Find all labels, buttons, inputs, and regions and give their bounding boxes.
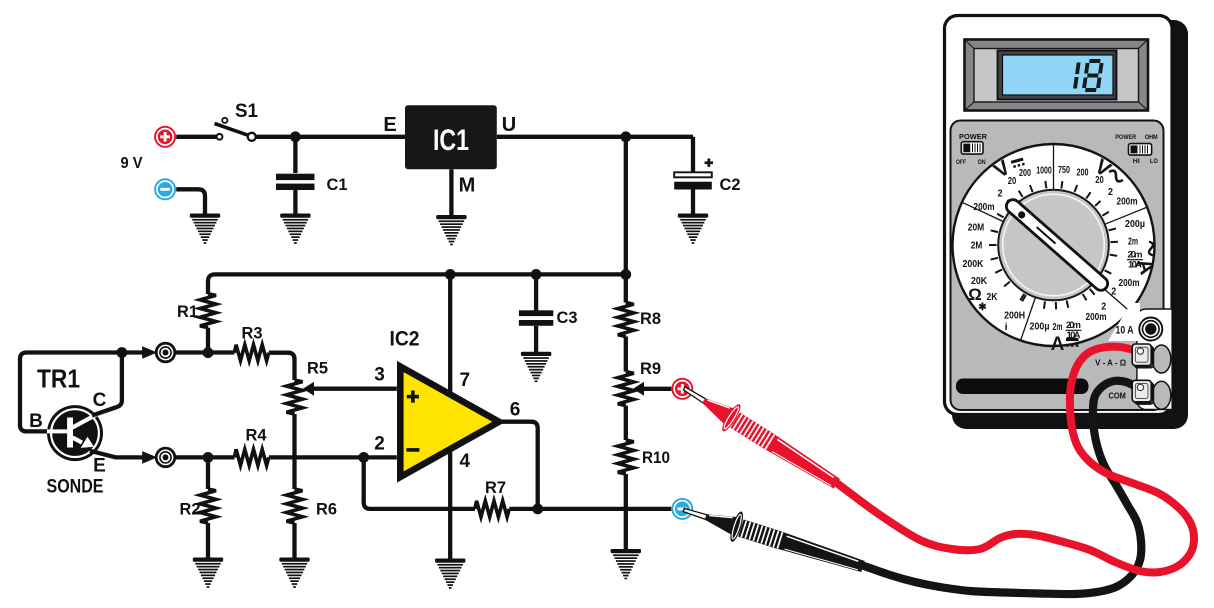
svg-text:R5: R5 — [307, 360, 328, 378]
svg-text:200µ: 200µ — [1125, 218, 1145, 230]
wire top supply rail — [208, 274, 626, 294]
power ohm switch — [1129, 144, 1152, 156]
transistor TR1 — [47, 405, 103, 461]
svg-text:COM: COM — [1108, 391, 1126, 401]
svg-text:200µ: 200µ — [1030, 321, 1050, 333]
red probe at + terminal — [676, 375, 845, 497]
svg-text:POWER: POWER — [959, 132, 988, 141]
svg-text:ON: ON — [978, 160, 986, 166]
svg-text:200: 200 — [1077, 167, 1089, 179]
ground under R10 node — [611, 549, 641, 579]
capacitor C1 — [276, 174, 315, 190]
wire R3 to R5 — [269, 353, 295, 380]
svg-text:E: E — [93, 456, 106, 477]
svg-text:200m: 200m — [1086, 311, 1107, 323]
V-A-Ohm jack with red plug — [1132, 344, 1171, 373]
svg-text:200: 200 — [1019, 167, 1031, 179]
svg-text:R8: R8 — [640, 310, 661, 328]
svg-text:200K: 200K — [963, 258, 984, 270]
svg-text:OHM: OHM — [1145, 134, 1158, 141]
svg-text:2m: 2m — [1053, 321, 1063, 333]
wire IC1 pin M to ground — [449, 169, 453, 216]
label 10 A — [1108, 303, 1140, 341]
10A input jack — [1139, 318, 1162, 341]
svg-text:200H: 200H — [1004, 310, 1025, 322]
node C3 junction — [531, 269, 542, 280]
svg-text:750: 750 — [1058, 164, 1070, 176]
svg-text:IC2: IC2 — [390, 327, 420, 351]
svg-text:4: 4 — [460, 451, 471, 472]
op-amp - input mark — [406, 448, 419, 452]
svg-text:C1: C1 — [327, 176, 348, 194]
node pin6/R7 junction — [532, 504, 543, 515]
svg-text:R10: R10 — [642, 449, 670, 467]
wire connector1 to R3 — [175, 350, 235, 354]
LCD bevel lines — [965, 40, 1149, 111]
ground under R2 — [193, 558, 223, 588]
svg-text:2: 2 — [374, 434, 385, 455]
black probe at - terminal — [679, 495, 868, 582]
dial knob — [998, 190, 1109, 301]
resistor R4 — [234, 449, 268, 465]
resistor R2 — [200, 489, 216, 523]
battery - terminal — [154, 178, 176, 200]
label A ac section — [1132, 256, 1158, 277]
LCD screen — [1003, 55, 1114, 95]
svg-text:200m: 200m — [1119, 277, 1140, 289]
resistor R1 — [200, 294, 216, 328]
wire + terminal to R9 wiper — [641, 387, 672, 391]
svg-text:1000: 1000 — [1036, 165, 1052, 177]
svg-text:HI: HI — [1133, 159, 1140, 165]
black test lead cable — [864, 381, 1141, 594]
svg-text:20M: 20M — [968, 222, 985, 234]
resistor R10 — [618, 440, 634, 474]
rotary dial face — [953, 144, 1155, 346]
resistor R8 — [618, 303, 634, 337]
ground under C3 — [521, 352, 551, 382]
LCD digits 18 — [1075, 61, 1102, 90]
wire op-amp pin4 to ground — [448, 449, 452, 560]
capacitor C3 — [519, 310, 553, 326]
wire switch to IC1 pin E — [256, 135, 405, 139]
wire to C2 — [691, 137, 695, 172]
wire connector2 to R4 — [175, 455, 235, 459]
arrow R9 wiper — [633, 382, 644, 396]
node TR1 B-C junction — [117, 347, 128, 358]
svg-text:200m: 200m — [1117, 196, 1138, 208]
measure - terminal — [671, 498, 693, 520]
wire op-amp pin6 output — [499, 422, 538, 509]
wire battery- to ground — [176, 189, 205, 214]
wire R10 down to ground — [624, 474, 628, 550]
arrow R5 wiper — [303, 382, 314, 396]
node pin2 junction — [358, 452, 369, 463]
svg-text:R1: R1 — [177, 303, 198, 321]
ground under pin 4 — [435, 559, 465, 589]
wire rail to C3 — [534, 274, 538, 310]
wire R2 to ground — [206, 523, 210, 559]
op-amp + input mark — [407, 391, 419, 403]
LCD outer frame — [965, 40, 1149, 111]
wire R9 to R10 — [624, 406, 628, 440]
wire C1 to ground — [293, 190, 297, 215]
svg-text:S1: S1 — [235, 101, 258, 122]
multimeter front panel — [951, 121, 1164, 411]
regulator IC1 — [405, 105, 497, 169]
svg-text:2: 2 — [998, 188, 1003, 200]
svg-text:2: 2 — [1111, 286, 1116, 298]
wire to arrow — [122, 350, 143, 354]
svg-text:7: 7 — [460, 370, 471, 391]
multimeter body 3d side — [952, 20, 1188, 429]
ground under C1 — [280, 214, 310, 244]
wire R8 to R9 — [624, 337, 628, 372]
svg-text:R3: R3 — [242, 325, 263, 343]
svg-text:6: 6 — [510, 400, 521, 421]
wire TR1 emitter — [90, 451, 143, 458]
wire feedback to R7 — [364, 457, 475, 509]
capacitor C2 polarity + — [705, 159, 713, 167]
svg-text:2: 2 — [1108, 186, 1113, 198]
battery compartment slot — [956, 379, 1089, 395]
wire R5 to R6 — [292, 414, 296, 489]
svg-text:V - A - Ω: V - A - Ω — [1095, 358, 1126, 368]
battery + terminal — [154, 126, 176, 148]
svg-text:10 A: 10 A — [1116, 325, 1134, 337]
svg-text:LO: LO — [1150, 159, 1158, 165]
COM jack with black plug — [1132, 380, 1171, 409]
label V ac section — [1091, 155, 1115, 182]
node R1/R3 junction — [203, 347, 214, 358]
arrow into connector 1 — [142, 346, 157, 359]
node V+ junction — [620, 131, 631, 142]
resistor R6 — [287, 489, 303, 523]
svg-text:M: M — [459, 175, 476, 197]
power switch — [961, 142, 983, 154]
svg-text:2M: 2M — [971, 240, 983, 252]
svg-text:POWER: POWER — [1115, 134, 1136, 141]
ground under IC1 M — [436, 215, 466, 245]
svg-text:200m: 200m — [974, 201, 995, 213]
ground under C2 — [678, 214, 708, 244]
wire TR1 frame — [20, 353, 122, 432]
node junction C1 — [290, 131, 301, 142]
svg-text:B: B — [29, 411, 43, 432]
arrow into connector 2 — [142, 451, 157, 464]
svg-text:C: C — [93, 390, 107, 411]
red test lead cable — [838, 347, 1194, 573]
svg-text:R9: R9 — [640, 360, 661, 378]
resistor R5 (trimmer) — [287, 380, 303, 414]
node R2 junction — [203, 452, 214, 463]
svg-text:R7: R7 — [485, 479, 506, 497]
connector jack 1 — [156, 343, 175, 362]
ground under R6 — [279, 558, 309, 588]
jack panel notch — [1137, 309, 1172, 410]
LCD bezel — [998, 51, 1117, 100]
multimeter body face — [945, 16, 1173, 415]
dial section divider lines — [963, 145, 1146, 340]
wire to C1 — [293, 137, 297, 173]
resistor R9 (trimmer) — [618, 372, 634, 406]
svg-text:TR1: TR1 — [37, 364, 80, 394]
wire IC1 U output — [497, 135, 693, 139]
dial scale fraction labels — [963, 164, 1146, 341]
knob pointer — [1004, 197, 1111, 293]
svg-text:R6: R6 — [316, 501, 337, 519]
ground under battery - — [190, 214, 220, 244]
wire TR1 collector — [92, 353, 122, 416]
switch S1 — [215, 118, 256, 141]
svg-text:SONDE: SONDE — [47, 476, 104, 498]
wire C3 to ground — [534, 326, 538, 353]
svg-text:2K: 2K — [987, 291, 998, 303]
svg-text:3: 3 — [374, 365, 385, 386]
svg-text:A: A — [1051, 334, 1065, 355]
svg-text:U: U — [502, 114, 516, 136]
svg-text:E: E — [383, 114, 396, 136]
svg-text:9 V: 9 V — [121, 155, 143, 172]
svg-text:C3: C3 — [557, 309, 578, 327]
wire V+ rail down to R8 — [624, 137, 628, 303]
svg-text:i: i — [1005, 321, 1008, 333]
svg-text:✱: ✱ — [978, 302, 987, 313]
wire op-amp pin7 to rail — [448, 274, 452, 395]
fraction bars — [1066, 260, 1144, 331]
wire R7 node to - terminal — [509, 507, 671, 511]
resistor R3 — [234, 345, 268, 361]
svg-text:R2: R2 — [180, 501, 201, 519]
svg-text:OFF: OFF — [956, 160, 966, 166]
wire R6 to ground — [292, 523, 296, 559]
resistor R7 — [475, 501, 509, 517]
op-amp IC2 — [400, 367, 499, 478]
svg-text:C2: C2 — [720, 176, 741, 194]
dial tick marks — [989, 181, 1118, 309]
wire R1 to node — [206, 328, 210, 353]
wire node to R2 — [206, 457, 210, 489]
capacitor C2 — [674, 172, 712, 189]
connector jack 2 — [156, 448, 175, 467]
svg-text:2m: 2m — [1128, 236, 1138, 248]
svg-text:R4: R4 — [246, 427, 268, 445]
node pin7 junction — [445, 269, 456, 280]
wire op-amp pin3 to R5 wiper — [311, 387, 397, 391]
LCD inner plate — [974, 49, 1139, 103]
wire C2 to ground — [691, 190, 695, 215]
svg-text:IC1: IC1 — [433, 124, 469, 157]
measure + terminal — [671, 378, 693, 400]
wire battery+ to switch S1 — [176, 135, 216, 139]
wire R4 to op-amp pin2 — [269, 455, 397, 459]
label V dc section — [990, 156, 1014, 183]
node R8 junction — [620, 269, 631, 280]
